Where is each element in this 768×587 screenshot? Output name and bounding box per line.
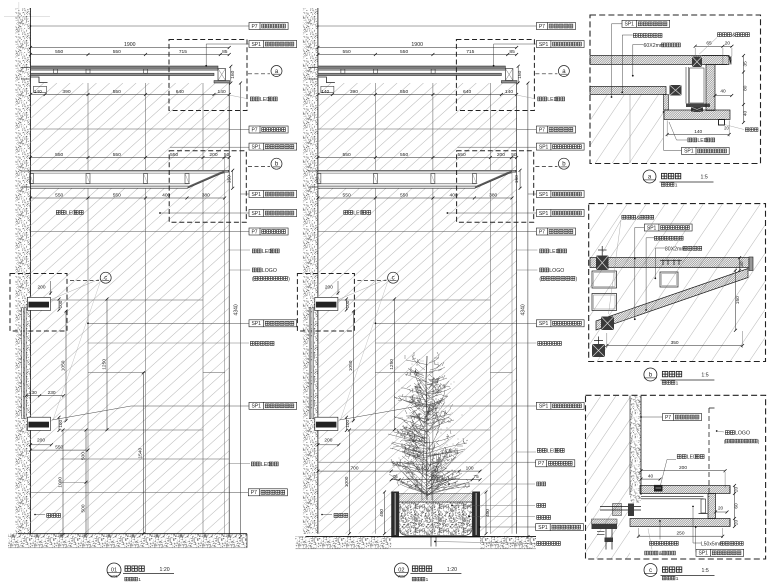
text illuminated LOGO 01	[252, 268, 256, 272]
svg-text:50: 50	[224, 152, 230, 158]
planter green band	[399, 494, 472, 503]
window glazing 02	[309, 308, 311, 419]
svg-text:P7: P7	[665, 415, 671, 421]
plant in planter drawing02	[388, 352, 470, 500]
detail b left top square tube w/ X	[596, 256, 609, 271]
svg-text:LOGO: LOGO	[262, 268, 277, 274]
label P7 exterior paint top 02	[536, 23, 575, 30]
detail c text hidden LED strip	[677, 455, 681, 459]
detail b bottom-left anchor cluster	[592, 344, 605, 357]
svg-text:40: 40	[648, 474, 654, 480]
detail a C-channel web	[706, 65, 715, 111]
svg-text:30: 30	[739, 261, 745, 267]
svg-text:LED: LED	[547, 449, 557, 455]
detail c vertical fixture	[701, 499, 706, 513]
svg-text:140: 140	[34, 89, 42, 95]
text hidden LED strip inner 01	[56, 211, 60, 215]
detail c right arm ends	[729, 486, 731, 494]
label SP1 channel mid 02	[536, 320, 584, 327]
svg-text:60X2mm: 60X2mm	[644, 43, 665, 49]
facade panel vertical joints 02	[374, 83, 376, 534]
waterproof label drawing02 (wall)	[334, 514, 338, 518]
detail c top band	[640, 486, 730, 494]
detail c wall anchor bolts	[613, 504, 622, 516]
detail b text foam rod sealant	[622, 215, 626, 219]
vertical dims 500/1000/500/1540 drawing01	[85, 430, 87, 535]
svg-text:100: 100	[466, 466, 474, 472]
dim row 550/550/715/85 02	[318, 54, 517, 56]
fin2 sloped canopy 02	[318, 170, 516, 188]
detail b right end cap	[749, 257, 753, 271]
svg-text:20: 20	[724, 126, 729, 131]
svg-text:85: 85	[222, 49, 228, 55]
svg-text:100: 100	[345, 300, 350, 308]
detail b dim 150	[735, 270, 737, 330]
dim row below fin2: 550/550/400/380 01	[31, 197, 225, 199]
svg-text:390: 390	[350, 89, 358, 95]
svg-text:LED: LED	[547, 97, 557, 103]
svg-text:550: 550	[113, 192, 121, 198]
detail b left square tube 2	[592, 294, 617, 311]
detail a right chain dims 35/80/40	[743, 56, 745, 123]
label SP1 channel fin2 b 02	[536, 210, 584, 217]
svg-text:550: 550	[170, 152, 178, 158]
detail b text honeycomb backing	[654, 236, 658, 240]
label SP1 planter 02	[536, 524, 584, 531]
fin1 right end cap 01	[218, 69, 226, 81]
detail a bottom plate	[664, 110, 730, 120]
dashed detail box b on 02	[457, 151, 534, 223]
svg-text:550: 550	[113, 152, 121, 158]
svg-text:550: 550	[458, 152, 466, 158]
detail c text illuminated LOGO	[725, 431, 729, 435]
label P7 low 01	[248, 489, 287, 496]
svg-text:130: 130	[29, 390, 37, 396]
svg-text:550: 550	[400, 89, 408, 95]
svg-text:1900: 1900	[411, 42, 423, 48]
svg-text:20: 20	[734, 487, 740, 493]
label SP1 channel fin2 top 02	[536, 143, 584, 150]
svg-text:SP1: SP1	[251, 192, 261, 198]
svg-text:LED: LED	[260, 97, 270, 103]
detail c C web	[708, 494, 716, 519]
detail c LED slot	[654, 485, 663, 492]
label P7 exterior paint 2 01	[249, 126, 288, 133]
planter dims drawing02	[318, 470, 480, 472]
svg-text:1: 1	[675, 183, 678, 189]
svg-text:200: 200	[497, 152, 505, 158]
text new finished window 01	[250, 342, 254, 346]
detail b dim 30 plate thickness	[739, 258, 741, 271]
label P7 exterior paint 3 01	[249, 228, 288, 235]
svg-text:140: 140	[321, 89, 329, 95]
svg-text:1: 1	[138, 577, 141, 583]
facade panel vertical joints 01	[87, 83, 89, 534]
svg-text:400: 400	[485, 509, 491, 517]
text waterproof layer col2 02	[537, 516, 541, 520]
svg-text:SP1: SP1	[251, 42, 261, 48]
svg-text:1000: 1000	[57, 477, 63, 488]
section marker b 01	[271, 158, 282, 169]
svg-text:100: 100	[58, 420, 63, 428]
svg-text:W01: W01	[110, 575, 117, 579]
svg-text:L50x5mm: L50x5mm	[701, 541, 723, 547]
svg-text:1: 1	[676, 576, 679, 582]
overall height dim 4340 01	[240, 83, 242, 537]
svg-text:P7: P7	[251, 127, 257, 133]
dashed detail box b on 01	[169, 151, 246, 223]
svg-text:): )	[288, 277, 290, 283]
svg-text:550: 550	[55, 445, 63, 451]
svg-text:c: c	[649, 568, 652, 574]
detail a text hidden LED strip	[688, 138, 692, 142]
label P7 low 02	[536, 460, 575, 467]
detail a text drip line	[745, 128, 749, 132]
svg-text:SP1: SP1	[684, 149, 694, 155]
dim 130/230 row drawing01	[26, 395, 64, 397]
svg-text:4340: 4340	[521, 304, 527, 315]
svg-text:SP1: SP1	[539, 321, 549, 327]
dim 1900 02	[318, 47, 517, 49]
svg-text:230: 230	[48, 390, 56, 396]
svg-text:LED: LED	[687, 455, 697, 461]
planter right wall	[472, 492, 480, 538]
svg-text:1:5: 1:5	[701, 373, 708, 379]
svg-text:40: 40	[743, 111, 749, 117]
label SP1 channel low 02	[536, 402, 584, 409]
dim row 550/550/715/85 01	[31, 54, 230, 56]
svg-text:1: 1	[426, 577, 429, 583]
title block detail a	[643, 170, 656, 183]
elevation drawing 01: concrete wall strip	[16, 8, 31, 534]
text illuminated LOGO 02	[540, 268, 544, 272]
svg-text:200: 200	[679, 465, 687, 471]
window header 01	[27, 297, 50, 310]
detail a text foam rod sealant	[718, 33, 722, 37]
text green trough 02	[537, 482, 541, 486]
detail b sloped bottom plate	[596, 269, 748, 331]
svg-text:550: 550	[113, 89, 121, 95]
svg-text:500: 500	[80, 452, 86, 460]
svg-text:160: 160	[230, 70, 236, 78]
dim row above fin2: 550/550/550/200/50 01	[31, 157, 230, 159]
text planting soil 02	[537, 504, 541, 508]
svg-text:SP1: SP1	[539, 192, 549, 198]
svg-text:SP1: SP1	[698, 551, 708, 557]
svg-text:SP1: SP1	[647, 225, 657, 231]
detail b anchor ticks above left tube	[598, 249, 607, 251]
dim row 140/390/550/640/140 01	[31, 94, 230, 96]
svg-text:SP1: SP1	[251, 144, 261, 150]
svg-text:SP1: SP1	[251, 321, 261, 327]
leader SP1 top 01	[206, 44, 249, 66]
text hidden LED strip col 02	[540, 249, 544, 253]
detail c text honeycomb backing	[650, 541, 654, 545]
text hidden LED strip low 01	[251, 462, 255, 466]
overall height dim 4340 02	[527, 83, 529, 537]
svg-text:85: 85	[509, 49, 515, 55]
text hidden LED strip 01 (fin1)	[250, 97, 254, 101]
label SP1 channel fin2 top 01	[249, 143, 297, 150]
detail a label SP1 top	[622, 20, 670, 27]
ground band drawing01	[8, 534, 247, 548]
detail a top plate	[590, 56, 729, 65]
svg-text:P7: P7	[539, 24, 545, 30]
label SP1 channel fin2 b 01	[249, 210, 297, 217]
corner reference crosshair	[4, 16, 50, 18]
svg-text:350: 350	[671, 340, 679, 346]
svg-text:80X2mm: 80X2mm	[665, 246, 686, 252]
facade horizontal joints 02	[318, 128, 517, 130]
label SP1 channel mid 01	[249, 320, 297, 327]
detail a top square tube w/ X	[692, 57, 702, 68]
svg-text:1250: 1250	[389, 359, 395, 370]
label SP1 stainless channel top 02	[536, 41, 584, 48]
detail c floor cluster	[592, 519, 618, 524]
svg-text:550: 550	[113, 49, 121, 55]
detail c bottom band	[630, 519, 730, 527]
title block detail c	[644, 564, 657, 577]
label P7 exterior paint 2 02	[536, 126, 575, 133]
svg-text:380: 380	[489, 192, 497, 198]
svg-text:200: 200	[37, 438, 45, 444]
svg-text:200: 200	[324, 438, 332, 444]
svg-text:550: 550	[55, 49, 63, 55]
detail b top plate	[590, 258, 749, 268]
svg-text:550: 550	[400, 192, 408, 198]
text hidden LED strip inner 02	[344, 211, 348, 215]
detail b middle square tube	[660, 272, 678, 287]
svg-text:SP1: SP1	[539, 404, 549, 410]
svg-text:140: 140	[694, 129, 702, 135]
svg-text:SP1: SP1	[624, 22, 634, 28]
svg-text:500: 500	[80, 504, 86, 512]
svg-text:P7: P7	[251, 229, 257, 235]
svg-text:160: 160	[517, 70, 523, 78]
window sill 02	[315, 417, 338, 430]
svg-text:1540: 1540	[138, 448, 144, 459]
text embedded drain pipe 02	[537, 542, 541, 546]
dim row 140/390/550/640/140 02	[318, 94, 517, 96]
label P7 exterior paint top 01	[249, 23, 288, 30]
text hidden LED strip low 02	[537, 449, 541, 453]
svg-text:1050: 1050	[60, 360, 66, 371]
detail a lower plate	[590, 87, 666, 95]
detail c dashed LOGO line	[708, 408, 710, 497]
svg-text:SP1: SP1	[251, 404, 261, 410]
dashed detail box a on 01	[169, 40, 247, 111]
svg-text:200: 200	[209, 152, 217, 158]
svg-text:550: 550	[400, 152, 408, 158]
svg-text:715: 715	[179, 49, 187, 55]
drain pipe below planter	[430, 537, 432, 547]
text hidden LED strip 02 (fin1)	[538, 97, 542, 101]
svg-text:LED: LED	[549, 249, 559, 255]
svg-text:150: 150	[227, 175, 233, 183]
svg-text:65: 65	[706, 41, 712, 47]
svg-text:1:5: 1:5	[701, 175, 708, 181]
detail c diffuser glass	[641, 495, 704, 497]
svg-text:P7: P7	[539, 229, 545, 235]
facade horizontal joints 01	[31, 128, 230, 130]
svg-text:): )	[576, 277, 578, 283]
title block detail b	[644, 368, 657, 381]
svg-text:140: 140	[505, 89, 513, 95]
svg-text:4340: 4340	[233, 304, 239, 315]
detail c dim 250	[638, 535, 722, 537]
svg-text:LED: LED	[697, 138, 707, 144]
svg-text:LOGO: LOGO	[549, 268, 564, 274]
svg-text:140: 140	[218, 89, 226, 95]
detail b sloped plate left X square	[601, 317, 614, 331]
detail c wall strip	[630, 396, 641, 503]
section marker b 02	[558, 158, 569, 169]
svg-text:P7: P7	[251, 24, 257, 30]
leader SP1 top 02	[494, 44, 537, 66]
dim row above fin2: 550/550/550/200/50 02	[318, 157, 517, 159]
detail c dim 40	[641, 478, 660, 480]
fin2 sloped canopy 01	[31, 170, 229, 188]
fin1 wall anchor step 02	[318, 77, 335, 83]
svg-text:SP1: SP1	[539, 42, 549, 48]
ground band drawing02	[295, 536, 391, 548]
svg-text:550: 550	[343, 192, 351, 198]
svg-text:100: 100	[58, 300, 63, 308]
detail c dim 200	[641, 470, 725, 472]
svg-text:550: 550	[343, 49, 351, 55]
text new finished window 02	[538, 342, 542, 346]
dim 1900 01	[31, 47, 230, 49]
svg-text:250: 250	[676, 531, 684, 537]
svg-text:P7: P7	[251, 490, 257, 496]
svg-text:1:20: 1:20	[160, 567, 170, 573]
svg-text:40: 40	[720, 88, 726, 94]
detail a C-channel top arm right end	[715, 56, 731, 65]
detail a LED fixture flange	[686, 104, 710, 108]
window header 02	[315, 297, 338, 310]
detail a LED cavity glass	[685, 67, 687, 104]
svg-text:50: 50	[511, 152, 517, 158]
detail b left square tube 1	[592, 271, 617, 288]
svg-text:380: 380	[202, 192, 210, 198]
dim row below fin2: 550/550/400/380 02	[318, 197, 512, 199]
label SP1 channel fin2 a 02	[536, 191, 584, 198]
window glazing 01	[22, 308, 24, 419]
svg-text:1: 1	[676, 381, 679, 387]
svg-text:400: 400	[379, 509, 385, 517]
svg-text:20: 20	[725, 41, 731, 47]
svg-text:640: 640	[176, 89, 184, 95]
svg-text:LOGO: LOGO	[735, 431, 750, 437]
label SP1 channel low 01	[249, 402, 297, 409]
svg-text:80: 80	[743, 85, 749, 91]
section marker a 01	[271, 66, 282, 77]
fin1 right end cap 02	[505, 69, 513, 81]
svg-text:1900: 1900	[124, 42, 136, 48]
svg-text:75: 75	[474, 474, 480, 479]
detail a LED slot left wall	[664, 95, 669, 111]
svg-text:715: 715	[466, 49, 474, 55]
svg-text:1050: 1050	[348, 360, 354, 371]
vertical dim 160 at fin1 end 01	[230, 66, 232, 83]
label SP1 channel fin2 a 01	[249, 191, 297, 198]
svg-text:W02: W02	[398, 575, 405, 579]
fin2 150 height dim 01	[232, 170, 234, 188]
svg-text:1000: 1000	[344, 476, 350, 487]
svg-text:150: 150	[514, 175, 520, 183]
detail b label SP1	[644, 224, 692, 231]
svg-text:550: 550	[343, 152, 351, 158]
svg-text:550: 550	[55, 152, 63, 158]
svg-text:SP1: SP1	[538, 525, 548, 531]
c callout circle 02	[388, 272, 399, 283]
svg-text:P7: P7	[539, 127, 545, 133]
detail a dim 140	[667, 134, 729, 136]
svg-text:550: 550	[55, 192, 63, 198]
svg-text:SP1: SP1	[539, 211, 549, 217]
dashed detail box c on 01	[10, 274, 67, 332]
detail c text foam rod sealant	[645, 551, 649, 555]
svg-text:SP1: SP1	[539, 144, 549, 150]
section marker a 02	[558, 66, 569, 77]
detail a lower square tube w/ X	[670, 85, 682, 96]
svg-text:SP1: SP1	[251, 211, 261, 217]
planter soil	[399, 502, 472, 535]
fin1 wall anchor step 01	[31, 77, 48, 83]
vertical dim 160 at fin1 end 02	[517, 66, 519, 83]
title block 01	[107, 563, 121, 577]
svg-text:200: 200	[325, 285, 333, 291]
detail c label P7	[663, 414, 702, 421]
svg-text:1:20: 1:20	[447, 567, 457, 573]
fin1 top canopy 02	[318, 66, 506, 69]
detail c dashed border	[586, 395, 766, 559]
detail a dim 65/20	[695, 45, 732, 47]
detail c label SP1	[696, 549, 744, 556]
waterproof label drawing01	[47, 514, 51, 518]
detail a drip groove	[719, 120, 725, 126]
dashed detail box a on 02	[456, 40, 534, 111]
detail b dim 350	[607, 345, 743, 347]
text hidden LED strip col 01	[252, 249, 256, 253]
detail b dashed border	[589, 204, 766, 362]
svg-text:1:5: 1:5	[702, 568, 709, 574]
fin2 150 height dim 02	[519, 170, 521, 188]
title block 02	[394, 563, 408, 577]
label SP1 stainless channel top 01	[249, 41, 297, 48]
svg-text:60: 60	[734, 503, 740, 509]
svg-text:35: 35	[743, 61, 749, 67]
window sill 01	[27, 417, 50, 430]
svg-text:200: 200	[37, 285, 45, 291]
svg-text:640: 640	[463, 89, 471, 95]
planter left wall	[391, 492, 399, 538]
detail b fasteners on top plate	[662, 260, 664, 266]
dim 550 bottom drawing01	[31, 449, 89, 451]
detail a text honeycomb backing	[633, 34, 637, 38]
elevation drawing 02: concrete wall strip	[303, 8, 318, 534]
svg-text:700: 700	[350, 466, 358, 472]
label P7 exterior paint 3 02	[536, 228, 575, 235]
svg-text:LED: LED	[66, 211, 76, 217]
svg-text:550: 550	[400, 49, 408, 55]
svg-text:1250: 1250	[101, 359, 107, 370]
svg-text:150: 150	[735, 296, 741, 304]
top leader P7 01	[31, 25, 250, 27]
svg-text:LED: LED	[353, 211, 363, 217]
svg-text:LED: LED	[262, 249, 272, 255]
svg-text:P7: P7	[538, 461, 544, 467]
